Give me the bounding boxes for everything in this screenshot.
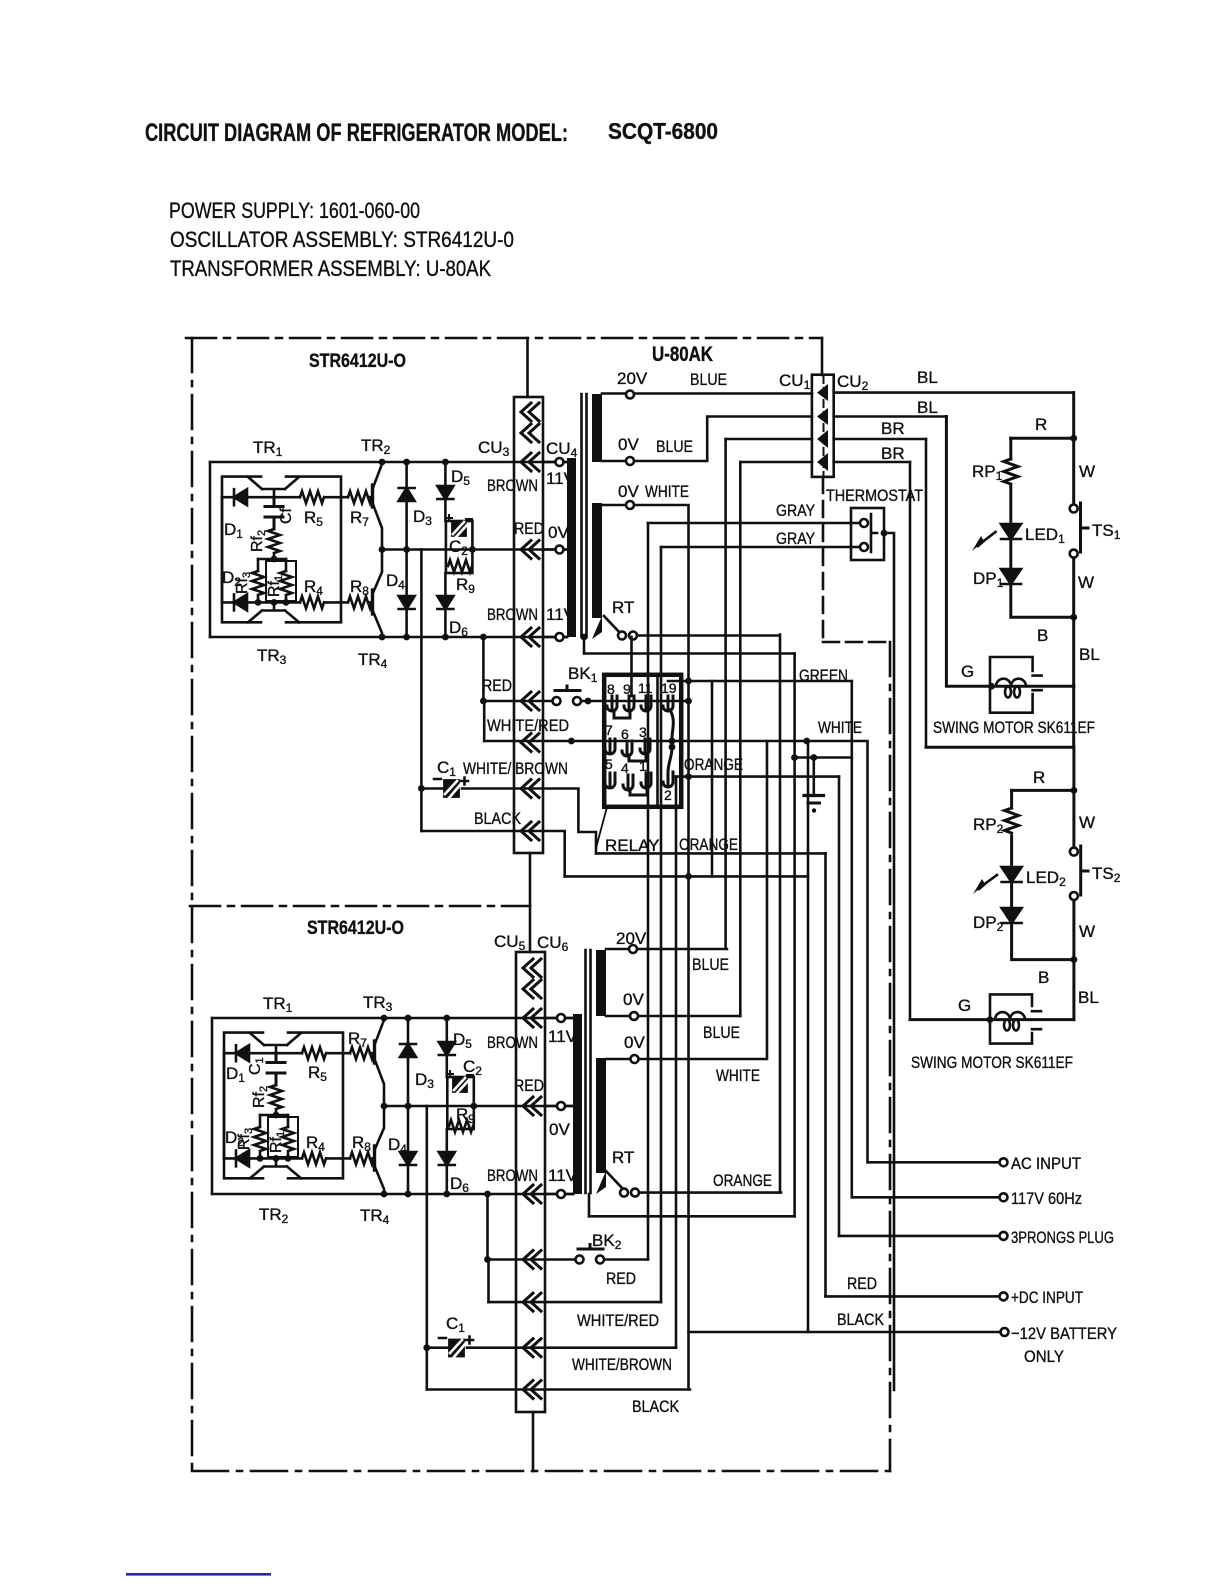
wire RT1 drop to relay pin 9 bbox=[630, 637, 633, 696]
bus: BR2 riser to motor2 G bbox=[909, 462, 912, 1020]
svg-text:Rf1: Rf1 bbox=[268, 1131, 287, 1153]
svg-text:DP2: DP2 bbox=[973, 913, 1004, 934]
svg-text:TR2: TR2 bbox=[361, 436, 391, 457]
wire: row2 D2-R4 bbox=[224, 1157, 374, 1160]
wire RED row to relay bbox=[483, 700, 688, 703]
svg-text:RED: RED bbox=[514, 519, 544, 538]
bus: white/brown2 riser bbox=[675, 777, 678, 1348]
wire RP1 branch down bbox=[1009, 438, 1012, 459]
node G motor1 bbox=[988, 683, 995, 690]
wire: module2 bottom rail 11V bbox=[212, 1193, 573, 1196]
bus: riser to +DC bbox=[824, 853, 827, 1296]
20V tap wire 2 bbox=[606, 948, 727, 951]
connector CU3-CU4 box bbox=[514, 397, 543, 853]
node B junction bbox=[1070, 614, 1077, 621]
wire: module1 top rail 11V bbox=[210, 461, 567, 464]
svg-text:U-80AK: U-80AK bbox=[652, 343, 713, 366]
svg-text:TR3: TR3 bbox=[363, 993, 393, 1014]
svg-text:TRANSFORMER ASSEMBLY: U-80AK: TRANSFORMER ASSEMBLY: U-80AK bbox=[170, 256, 491, 281]
transformer2 secondary upper bar bbox=[596, 950, 606, 1016]
blue underline mark bottom left bbox=[126, 1573, 271, 1576]
resistor RP2 bbox=[1005, 808, 1019, 833]
svg-text:LED2: LED2 bbox=[1026, 868, 1066, 889]
svg-text:BLUE: BLUE bbox=[692, 955, 729, 974]
wire BL2 right bbox=[834, 415, 947, 418]
svg-text:D6: D6 bbox=[449, 618, 468, 639]
bus: gray2 to WHITE/RED2 riser bbox=[660, 547, 663, 1302]
svg-text:C2: C2 bbox=[449, 537, 468, 558]
wire GREEN bbox=[668, 680, 852, 683]
transistor TR2 module2 (bottom left) bbox=[250, 1158, 301, 1178]
svg-text:BLACK: BLACK bbox=[632, 1397, 680, 1416]
enclosure dashed border bottom bbox=[192, 1470, 890, 1473]
wire GRAY upper bbox=[648, 522, 860, 525]
svg-text:CU1: CU1 bbox=[779, 371, 811, 392]
transistor TR1 bbox=[248, 477, 299, 497]
wire RED from bottom rail bbox=[482, 637, 485, 701]
swing motor 2 coil bbox=[995, 1012, 1025, 1030]
enclosure dashed border right lower bbox=[889, 642, 892, 1471]
LED1 light arrow bbox=[978, 532, 996, 546]
LED1 diode bbox=[1001, 524, 1021, 539]
svg-text:RED: RED bbox=[514, 1076, 544, 1095]
middle dashed border of lower module bbox=[190, 905, 530, 908]
svg-text:R5: R5 bbox=[308, 1063, 327, 1084]
ground symbol bbox=[812, 758, 815, 796]
wire: module2 top rail 11V bbox=[212, 1017, 573, 1020]
label RELAY with leader bbox=[596, 807, 607, 848]
wire return from bottom rail to 794 riser bbox=[584, 637, 795, 654]
relay pin 19-2 contact column bbox=[663, 710, 673, 787]
capacitor C2 module2 bbox=[447, 1071, 473, 1093]
svg-text:WHITE/ BROWN: WHITE/ BROWN bbox=[463, 759, 568, 778]
wire WHITE row (white/red continues to AC riser) bbox=[484, 741, 867, 1162]
CU6 terminal circle 11V bottom 2 bbox=[545, 1193, 573, 1196]
CU4 terminal circle 0V bbox=[543, 548, 567, 551]
wire GRAY lower bbox=[661, 546, 860, 549]
svg-text:D1: D1 bbox=[226, 1064, 245, 1085]
wire white/brown row bbox=[421, 789, 596, 854]
node D3-D4 mid bbox=[403, 546, 410, 553]
svg-text:0V: 0V bbox=[624, 1033, 645, 1052]
node Rf junction bbox=[271, 556, 278, 563]
wire 3PRONGS PLUG bbox=[839, 1235, 1003, 1238]
resistor R8 module2 bbox=[350, 1152, 374, 1164]
connector mating dashed line bbox=[823, 376, 825, 476]
svg-text:R7: R7 bbox=[348, 1029, 367, 1050]
resistor Rf3 module2 bbox=[259, 1115, 262, 1127]
svg-text:SWING MOTOR SK611EF: SWING MOTOR SK611EF bbox=[911, 1053, 1073, 1072]
transistor TR3 module2 (top right) bbox=[375, 1020, 385, 1106]
relay pins row 1 bbox=[656, 676, 659, 805]
swing motor 1 coil bbox=[996, 679, 1026, 698]
svg-text:D5: D5 bbox=[453, 1030, 472, 1051]
chevron on 0V wire 2 bbox=[523, 1097, 541, 1115]
enclosure dashed border jog at thermostat bbox=[823, 641, 890, 644]
resistor R5 module2 bbox=[302, 1047, 326, 1059]
wire -12V BATTERY bbox=[689, 1331, 1005, 1334]
wire top border down to CU1 bbox=[821, 338, 824, 375]
svg-text:RED: RED bbox=[482, 676, 512, 695]
connector CU5-CU6 box bbox=[516, 952, 545, 1412]
svg-text:CU3: CU3 bbox=[478, 438, 510, 459]
svg-text:Rf1: Rf1 bbox=[266, 575, 285, 597]
svg-text:−12V BATTERY: −12V BATTERY bbox=[1011, 1324, 1117, 1343]
wire short row with ground bbox=[795, 756, 852, 759]
svg-text:117V 60Hz: 117V 60Hz bbox=[1011, 1189, 1082, 1208]
RT2 thermal switch bar tip bbox=[596, 1171, 606, 1194]
transistor TR4 bbox=[373, 550, 383, 638]
bus: riser 794 down bbox=[793, 654, 796, 1217]
wire G row motor2 bbox=[910, 1018, 1074, 1021]
0V tap wire 2 bbox=[606, 1015, 740, 1018]
svg-text:BL: BL bbox=[1079, 645, 1100, 664]
wire R top row 2 bbox=[1012, 789, 1074, 792]
resistor RP1 bbox=[1004, 459, 1018, 484]
transformer primary winding bar bbox=[567, 458, 576, 637]
svg-text:0V: 0V bbox=[548, 523, 569, 542]
wire: module1 bottom rail 11V bbox=[210, 636, 567, 639]
svg-text:ONLY: ONLY bbox=[1024, 1347, 1064, 1366]
wire DP2 link bbox=[1010, 883, 1013, 908]
chevron on 11V top wire bbox=[521, 453, 539, 471]
svg-text:OSCILLATOR ASSEMBLY: STR6412U-: OSCILLATOR ASSEMBLY: STR6412U-0 bbox=[170, 227, 514, 252]
svg-text:RT: RT bbox=[612, 1148, 634, 1167]
resistor Rf2 bbox=[268, 529, 280, 553]
wire C1 riser from mid rail bbox=[420, 550, 423, 832]
svg-text:CIRCUIT DIAGRAM OF REFRIGERATO: CIRCUIT DIAGRAM OF REFRIGERATOR MODEL: bbox=[145, 119, 568, 147]
chevron on BLACK wire bbox=[521, 822, 539, 840]
wire C1 riser2 from mid rail bbox=[425, 1106, 428, 1390]
svg-text:GRAY: GRAY bbox=[776, 501, 815, 520]
wire: module1 left closure bbox=[209, 462, 212, 637]
wire: module2 left closure bbox=[211, 1018, 214, 1194]
0V tap wire bbox=[602, 417, 812, 462]
svg-text:WHITE: WHITE bbox=[818, 718, 862, 737]
thermostat contact lever bbox=[871, 514, 877, 552]
svg-text:W: W bbox=[1079, 813, 1095, 832]
svg-text:SWING MOTOR SK611EF: SWING MOTOR SK611EF bbox=[933, 718, 1095, 737]
svg-text:0V: 0V bbox=[623, 990, 644, 1009]
transformer2 secondary lower bar bbox=[596, 1058, 606, 1173]
svg-text:LED1: LED1 bbox=[1025, 525, 1065, 546]
capacitor Cf bbox=[265, 497, 283, 529]
svg-text:BL: BL bbox=[1078, 988, 1099, 1007]
svg-text:ORANGE: ORANGE bbox=[679, 835, 738, 854]
svg-text:R7: R7 bbox=[350, 508, 369, 529]
wire RP2 branch bbox=[1010, 790, 1013, 808]
svg-text:BLUE: BLUE bbox=[703, 1023, 740, 1042]
diode DP2 bbox=[1002, 908, 1022, 923]
small box around Rf1 bbox=[266, 561, 296, 601]
relay pins row 2 bbox=[605, 739, 650, 761]
C1 electrolytic symbol 2 bbox=[439, 1337, 473, 1358]
svg-text:20V: 20V bbox=[617, 369, 648, 388]
relay pins row 3 bbox=[605, 773, 651, 795]
connector pin arrows bbox=[817, 384, 828, 471]
svg-text:STR6412U-O: STR6412U-O bbox=[307, 918, 404, 939]
svg-text:TS1: TS1 bbox=[1092, 521, 1121, 542]
wire TS2 right leg upper bbox=[1072, 747, 1075, 847]
wire RT to bus bbox=[637, 635, 780, 1193]
resistor R4 bbox=[300, 596, 324, 608]
transistor TR2 bbox=[373, 464, 383, 550]
node R junction bbox=[1070, 435, 1077, 442]
svg-text:RED: RED bbox=[847, 1274, 877, 1293]
chevron on BLACK wire 2 bbox=[523, 1381, 541, 1399]
CU4 terminal circle 11V bottom bbox=[543, 636, 567, 639]
bus: gray1 to BK2 riser bbox=[647, 523, 650, 1260]
svg-text:11: 11 bbox=[638, 680, 653, 696]
wire thermostat output down bbox=[884, 533, 894, 1390]
node TR4 emitter bottom rail bbox=[379, 634, 386, 641]
wire: row D1-R5 bbox=[222, 496, 372, 499]
svg-text:WHITE/RED: WHITE/RED bbox=[487, 716, 569, 735]
diode DP1 bbox=[1001, 569, 1021, 584]
svg-text:B: B bbox=[1038, 968, 1049, 987]
svg-text:0V: 0V bbox=[618, 435, 639, 454]
diode D3 module2 bbox=[407, 1018, 410, 1044]
wire TS2 right leg lower bbox=[1072, 901, 1075, 1020]
connector CU1-CU2 box bbox=[812, 375, 834, 477]
wire WHITE/RED drop bbox=[483, 701, 486, 741]
svg-text:C1: C1 bbox=[446, 1314, 465, 1335]
svg-text:SCQT-6800: SCQT-6800 bbox=[608, 118, 718, 144]
svg-text:WHITE/RED: WHITE/RED bbox=[577, 1311, 659, 1330]
CU6 terminal circle 11V top 2 bbox=[545, 1017, 573, 1020]
inner box A2 bbox=[224, 1033, 343, 1179]
chevron on RED wire 2 bbox=[523, 1251, 541, 1269]
wire long bottom row to 794 riser bbox=[589, 1215, 795, 1218]
svg-text:GREEN: GREEN bbox=[799, 666, 848, 685]
svg-text:19: 19 bbox=[661, 680, 677, 696]
svg-text:BL: BL bbox=[917, 368, 938, 387]
relay box bbox=[604, 675, 681, 807]
svg-text:0V: 0V bbox=[549, 1120, 570, 1139]
svg-text:TS2: TS2 bbox=[1092, 864, 1121, 885]
wire from top border to connector top bbox=[526, 338, 529, 397]
wire WHITE/RED2 row bbox=[489, 1301, 662, 1304]
svg-text:+DC INPUT: +DC INPUT bbox=[1011, 1288, 1083, 1307]
svg-text:B: B bbox=[1037, 626, 1048, 645]
swing motor 1 box bbox=[990, 657, 1042, 713]
node TR2 collector bbox=[379, 459, 386, 466]
svg-text:D5: D5 bbox=[451, 467, 470, 488]
svg-text:CU2: CU2 bbox=[837, 372, 869, 393]
chevron on 11V bottom wire 2 bbox=[523, 1185, 541, 1203]
chevron on RED wire bbox=[521, 692, 539, 710]
thermostat box bbox=[851, 508, 884, 560]
wire: left vertical D1-D2 bbox=[221, 497, 224, 602]
svg-text:RT: RT bbox=[612, 598, 634, 617]
svg-text:WHITE: WHITE bbox=[716, 1066, 760, 1085]
C1 electrolytic symbol bbox=[434, 778, 468, 799]
svg-text:TR4: TR4 bbox=[360, 1206, 390, 1227]
resistor R7 bbox=[348, 491, 372, 503]
wire WHITE/RED2 drop bbox=[487, 1260, 490, 1303]
svg-text:0V: 0V bbox=[618, 482, 639, 501]
chevron on 11V bottom wire bbox=[521, 628, 539, 646]
svg-text:BROWN: BROWN bbox=[487, 605, 538, 624]
wire connector2 bottom to border bbox=[532, 1412, 535, 1471]
wire connector bottom to lower module bbox=[529, 853, 532, 952]
svg-text:WHITE/BROWN: WHITE/BROWN bbox=[572, 1355, 672, 1374]
inner box A of oscillator 1 bbox=[222, 477, 341, 623]
parallel box C2 R9 module2 bbox=[447, 1077, 474, 1129]
wire TS1 right leg upper bbox=[1072, 393, 1075, 504]
resistor R5 bbox=[300, 491, 324, 503]
svg-text:BLACK: BLACK bbox=[474, 809, 522, 828]
svg-text:D1: D1 bbox=[224, 520, 243, 541]
wire DP1 link bbox=[1009, 540, 1012, 569]
resistor R4 module2 bbox=[302, 1152, 326, 1164]
svg-text:D4: D4 bbox=[388, 1135, 407, 1156]
transistor TR1 module2 bbox=[250, 1033, 301, 1053]
svg-text:R: R bbox=[1035, 415, 1047, 434]
resistor R8 bbox=[348, 596, 372, 608]
svg-text:D2: D2 bbox=[225, 1128, 244, 1149]
CU6 terminal circle 0V 2 bbox=[545, 1105, 573, 1108]
transformer2 primary winding bar bbox=[573, 1014, 582, 1194]
wire white/brown2 row bbox=[427, 1346, 676, 1349]
svg-text:R: R bbox=[1033, 768, 1045, 787]
resistor Rf1 bbox=[285, 559, 288, 571]
node thermostat output bbox=[881, 530, 888, 537]
svg-text:DP1: DP1 bbox=[973, 569, 1004, 590]
svg-text:BR: BR bbox=[881, 444, 905, 463]
transformer core lines bbox=[582, 394, 587, 637]
svg-text:G: G bbox=[961, 662, 974, 681]
resistor R7 module2 bbox=[350, 1047, 374, 1059]
resistor R9 bbox=[448, 560, 472, 572]
node R junction 2 bbox=[1071, 787, 1078, 794]
wire: left vertical D1-D2 2 bbox=[223, 1053, 226, 1158]
transistor TR4 module2 bbox=[375, 1106, 385, 1194]
bus: riser 712 relay to lower bbox=[711, 681, 714, 876]
node D4 bottom bbox=[403, 634, 410, 641]
node G motor2 bbox=[987, 1016, 994, 1023]
svg-text:RP2: RP2 bbox=[973, 815, 1004, 836]
svg-text:RED: RED bbox=[606, 1269, 636, 1288]
chevron on WHITE/BROWN wire bbox=[521, 780, 539, 798]
svg-text:BLUE: BLUE bbox=[690, 370, 727, 389]
svg-text:TR1: TR1 bbox=[263, 994, 293, 1015]
diode D1 module2 bbox=[236, 1045, 249, 1061]
svg-text:THERMOSTAT: THERMOSTAT bbox=[826, 486, 923, 505]
svg-text:BK1: BK1 bbox=[568, 664, 598, 685]
node D3 top bbox=[403, 459, 410, 466]
node Rf2 bottom junction bbox=[271, 599, 278, 606]
svg-text:W: W bbox=[1078, 573, 1094, 592]
chevron on WHITE/RED wire bbox=[521, 734, 539, 752]
enclosure dashed border top bbox=[186, 337, 822, 340]
node D6 bottom bbox=[442, 634, 449, 641]
svg-text:7: 7 bbox=[605, 722, 613, 738]
node B junction 2 bbox=[1071, 956, 1078, 963]
node TR2 emitter mid rail bbox=[379, 546, 386, 553]
svg-text:R8: R8 bbox=[350, 577, 369, 598]
wire BR1 right and riser to 20V lower bbox=[726, 438, 926, 441]
transformer secondary lower bar (white) bbox=[592, 503, 602, 618]
diode D4 module2 bbox=[407, 1106, 410, 1152]
svg-text:RP1: RP1 bbox=[972, 462, 1003, 483]
bus: BR1 riser to TS2 loop bbox=[925, 439, 928, 747]
svg-text:3PRONGS PLUG: 3PRONGS PLUG bbox=[1011, 1228, 1114, 1247]
wire 117V 60Hz bbox=[852, 1196, 1003, 1199]
wire BR2 right and riser to 0V lower bbox=[740, 461, 910, 464]
wire RED2 row bbox=[488, 1258, 649, 1261]
RT thermal switch bar tip bbox=[592, 616, 602, 639]
svg-text:D3: D3 bbox=[413, 507, 432, 528]
20V tap wire and terminal bbox=[602, 392, 812, 395]
wire BLACK2 row bbox=[427, 1388, 690, 1391]
enclosure dashed segment below CU1 bbox=[822, 477, 825, 642]
wire: module1 mid rail 0V bbox=[382, 548, 567, 551]
svg-text:R9: R9 bbox=[456, 575, 475, 596]
resistor Rf2 module2 bbox=[270, 1085, 282, 1109]
parallel box C2 R9 bbox=[446, 521, 473, 573]
svg-text:TR1: TR1 bbox=[253, 438, 283, 459]
LED2 diode bbox=[1002, 867, 1022, 882]
transformer secondary upper bar (20V blue) bbox=[592, 394, 602, 462]
svg-text:D4: D4 bbox=[386, 571, 405, 592]
node C2 box to mid rail bbox=[469, 546, 476, 553]
0V white tap wire bbox=[602, 505, 689, 1390]
chevron on WHITE/BROWN wire 2 bbox=[523, 1339, 541, 1357]
svg-text:G: G bbox=[958, 996, 971, 1015]
resistor R9 module2 bbox=[449, 1120, 473, 1132]
svg-text:W: W bbox=[1079, 462, 1095, 481]
thermostat terminals bbox=[860, 519, 868, 527]
wire LED1 link bbox=[1009, 486, 1012, 524]
svg-text:BROWN: BROWN bbox=[487, 1166, 538, 1185]
wire: row2 D1-R5 bbox=[224, 1052, 374, 1055]
svg-text:CU5: CU5 bbox=[494, 932, 526, 953]
resistor Rf1 module2 bbox=[287, 1115, 290, 1127]
svg-text:Cf: Cf bbox=[278, 507, 295, 524]
svg-text:D6: D6 bbox=[450, 1174, 469, 1195]
wire TS1 right leg lower bbox=[1072, 558, 1075, 686]
capacitor C1 module2 internal bbox=[267, 1053, 285, 1085]
svg-text:W: W bbox=[1079, 922, 1095, 941]
resistor Rf3 bbox=[257, 559, 260, 571]
diode D2 module2 bbox=[236, 1150, 249, 1166]
svg-text:R4: R4 bbox=[306, 1133, 325, 1154]
svg-text:5: 5 bbox=[605, 756, 613, 772]
svg-text:R4: R4 bbox=[304, 577, 323, 598]
svg-text:BR: BR bbox=[881, 419, 905, 438]
chevron marks upper 2 bbox=[523, 959, 541, 977]
transistor TR3 bbox=[248, 602, 299, 622]
svg-text:ORANGE: ORANGE bbox=[713, 1171, 772, 1190]
wire ORANGE row1 bbox=[676, 775, 839, 778]
wire lower horizontal to bus bbox=[565, 875, 808, 878]
svg-text:TR3: TR3 bbox=[257, 646, 287, 667]
chevron marks upper bbox=[521, 403, 539, 421]
svg-text:Rf2: Rf2 bbox=[251, 1086, 270, 1108]
diode D6 module2 bbox=[445, 1129, 448, 1152]
capacitor C2 hatched bbox=[446, 515, 472, 537]
wire RT2 row bbox=[639, 1191, 781, 1194]
svg-text:TR2: TR2 bbox=[259, 1205, 289, 1226]
0V white tap wire 2 bbox=[606, 741, 767, 1059]
svg-text:CU6: CU6 bbox=[537, 933, 569, 954]
svg-text:C1: C1 bbox=[437, 758, 456, 779]
wire G row motor1 bbox=[946, 417, 1073, 687]
svg-text:GRAY: GRAY bbox=[776, 529, 815, 548]
swing motor 2 box bbox=[990, 994, 1041, 1043]
bus: orange riser to 3PRONGS bbox=[838, 777, 841, 1236]
